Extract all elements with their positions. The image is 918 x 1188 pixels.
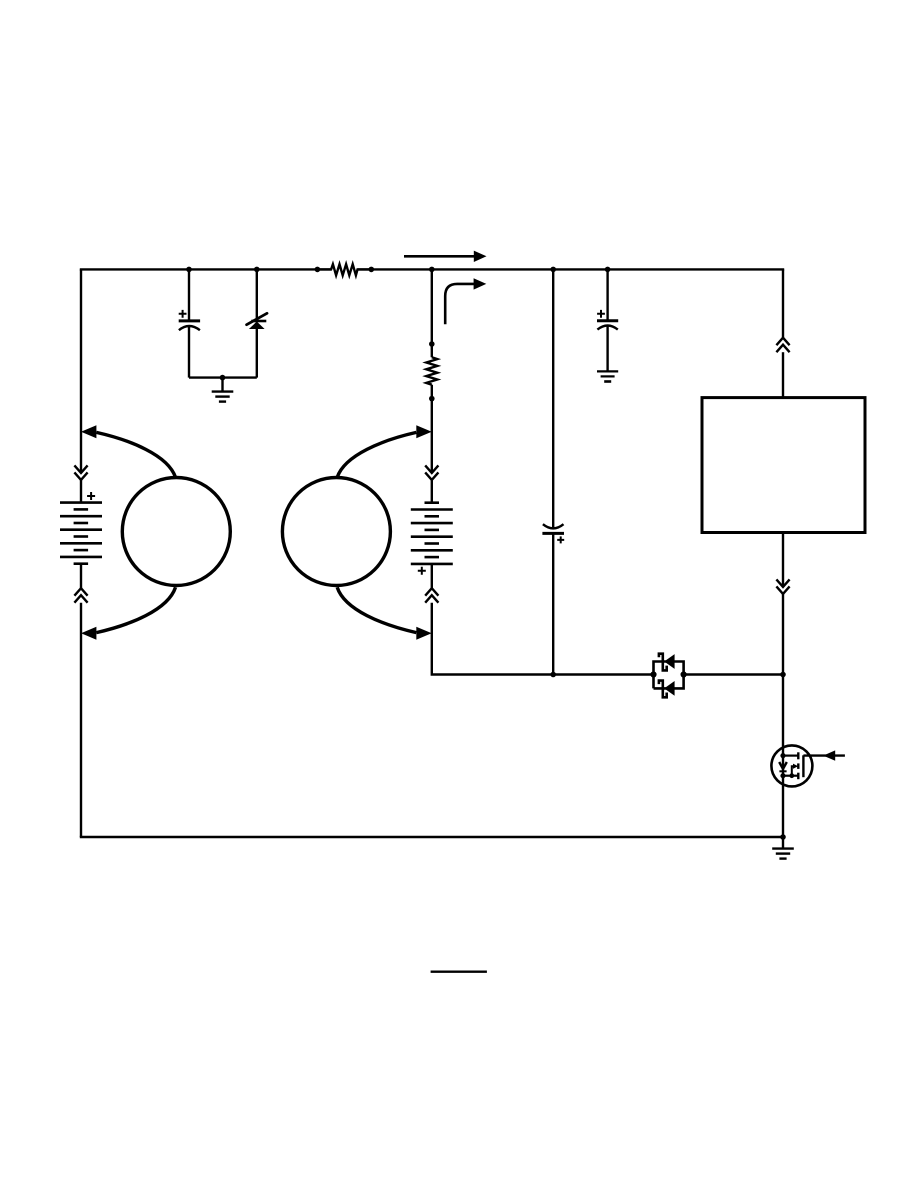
- zener diode D1: [247, 313, 267, 329]
- wire D1 bottom: [256, 329, 258, 378]
- motor M2 (right circle): [282, 478, 390, 586]
- capacitor C3 (polarized): [597, 321, 618, 330]
- node dot resistor R1 right: [369, 267, 375, 273]
- node dot TVS bus at right rail: [780, 672, 786, 678]
- wire TVS to right rail: [684, 673, 783, 675]
- Q1 body tie dot: [789, 773, 794, 778]
- ground G2: [597, 371, 618, 381]
- wire right rail lower (through MOSFET): [782, 594, 784, 837]
- wire left rail upper: [80, 269, 82, 473]
- capacitor C2 (polarized, + bottom): [542, 524, 564, 533]
- gate arrow (pointing left): [823, 750, 835, 760]
- wire R2 to chevrons: [431, 385, 433, 473]
- TVS left node dot: [650, 671, 656, 677]
- ground G1: [212, 378, 234, 402]
- wire branch capacitor C2 from top bus: [552, 269, 554, 528]
- current direction double chevron (up) on left rail: [74, 588, 87, 603]
- Q1 source lead: [783, 775, 798, 777]
- rotation arrow M2 top: [337, 425, 432, 477]
- node dot above R2: [429, 341, 435, 347]
- wire battery BT1 to chevrons: [80, 564, 82, 589]
- wire right rail upper: [782, 269, 784, 337]
- battery BT2 (right, + bottom): [411, 503, 453, 564]
- TVS zener Z1 (top) bar: [659, 654, 667, 671]
- TVS right node dot: [681, 671, 687, 677]
- block U1 (rectangle): [702, 398, 865, 533]
- wire box to chevrons: [782, 533, 784, 587]
- wire left rail to battery BT1: [80, 480, 82, 503]
- current flow arrow (straight, right): [404, 251, 487, 262]
- resistor R1: [317, 264, 371, 275]
- Q1 channel segments: [797, 752, 799, 779]
- TVS zener Z2 (bottom) bar: [659, 681, 667, 698]
- wire battery BT2 to chevrons: [431, 564, 433, 588]
- wire BT2 leg down and right to TVS bus: [432, 603, 654, 675]
- node dot at D1 top: [254, 267, 260, 273]
- wire branch capacitor C3 from top bus: [606, 269, 608, 320]
- plus label of C3: [597, 310, 605, 318]
- node dot at C3 top: [605, 267, 611, 273]
- TVS zener Z1 (top) triangle: [664, 654, 674, 669]
- Q1 source dot: [780, 773, 785, 778]
- wire top bus: [80, 268, 784, 270]
- battery BT1 (left, + top): [60, 503, 102, 564]
- current direction double chevron (down) on left rail: [74, 465, 87, 480]
- wire branch zener D1 top: [256, 269, 258, 319]
- Q1 body arrow: [792, 764, 798, 776]
- wire branch capacitor C1 top: [188, 269, 190, 319]
- wire chevrons to box: [782, 352, 784, 397]
- node dot below R2: [429, 396, 435, 402]
- wire branch R2 from top bus: [431, 269, 433, 357]
- node dot at C1 top: [186, 267, 192, 273]
- plus label of C1: [179, 310, 187, 318]
- TVS zener Z2 (bottom) triangle: [664, 681, 674, 696]
- current direction double chevron (down) above BT2: [425, 465, 438, 480]
- Q1 current chevron on rail: [779, 762, 787, 771]
- node dot at ground junction: [220, 375, 226, 381]
- rotation arrow M2 bottom: [337, 587, 432, 639]
- rotation arrow M1 bottom: [81, 587, 176, 639]
- plus label of BT1: [87, 492, 95, 500]
- current flow arrow (curved, down-to-right): [445, 278, 486, 324]
- Q1 drain lead: [783, 754, 798, 756]
- plus label of C2: [557, 536, 564, 543]
- current direction double chevron (up) below BT2: [425, 588, 438, 603]
- wire C2 bottom to TVS bus: [552, 533, 554, 674]
- node dot bottom bus at right rail: [780, 834, 786, 840]
- node dot at C2 bottom: [550, 672, 556, 678]
- node dot at branch R2 top: [429, 267, 435, 273]
- wire C3 to ground: [606, 326, 608, 371]
- capacitor C1 (polarized): [179, 321, 200, 330]
- wire C1 bottom: [188, 327, 190, 378]
- motor M1 (left circle): [122, 478, 230, 586]
- Q1 drain dot: [780, 753, 785, 758]
- plus label of BT2: [418, 567, 426, 575]
- figure label underline: [431, 971, 487, 973]
- resistor R2 (vertical): [426, 357, 437, 385]
- current direction double chevron (down) below box: [776, 579, 789, 594]
- wire bottom bus: [80, 836, 783, 838]
- wire left rail lower: [80, 603, 82, 837]
- node dot resistor R1 left: [315, 267, 321, 273]
- MOSFET Q1 circle: [771, 745, 812, 786]
- TVS loop frame: [654, 662, 684, 689]
- wire C1/D1 bottom tie: [189, 376, 257, 378]
- current direction double chevron (up) above box: [776, 338, 789, 353]
- Q1 gate lead: [803, 754, 845, 756]
- node dot at C2 top: [550, 267, 556, 273]
- Q1 gate bar: [802, 755, 804, 777]
- ground G3: [772, 837, 794, 859]
- wire chevrons to battery BT2: [431, 480, 433, 503]
- rotation arrow M1 top: [81, 425, 176, 477]
